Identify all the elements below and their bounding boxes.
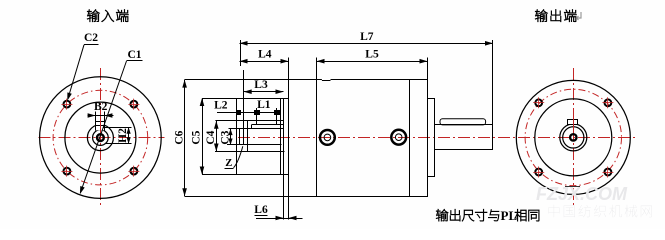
svg-text:L4: L4 — [258, 49, 272, 61]
svg-text:PL: PL — [501, 208, 518, 223]
svg-text:L2: L2 — [214, 99, 228, 111]
shaft step line under L3 — [243, 70, 245, 145]
left flange horizontal red centerline — [39, 137, 165, 139]
svg-text:C6: C6 — [174, 130, 186, 144]
dimension H2 extension lines — [103, 127, 132, 129]
L4 right extension line — [288, 58, 290, 80]
title text: output end (输出端) — [535, 10, 576, 22]
L5 extension lines — [316, 58, 318, 80]
svg-text:C1: C1 — [127, 49, 141, 61]
L4/L7 left extension line — [240, 40, 242, 66]
svg-text:L7: L7 — [360, 31, 374, 43]
output shaft key — [440, 119, 486, 125]
svg-text:Z: Z — [225, 158, 232, 169]
svg-text:C3: C3 — [219, 130, 231, 144]
watermark chinese line — [548, 205, 652, 218]
svg-text:L3: L3 — [254, 79, 268, 91]
right keyway key rectangle — [568, 120, 578, 125]
left flange vertical red centerline — [100, 68, 102, 207]
gearbox body rectangle — [289, 80, 428, 197]
left flange inner circle — [65, 102, 136, 173]
input shaft stub rectangle — [240, 128, 284, 130]
svg-text:L1: L1 — [257, 99, 271, 111]
dimension B2 line and arrows — [88, 115, 114, 117]
right flange inner circle — [535, 99, 612, 176]
output pilot ring — [428, 99, 435, 177]
body bolt hole right — [391, 130, 406, 145]
right hub center bore (thick) — [570, 134, 576, 140]
dimension C5 line with arrows — [202, 98, 204, 175]
dimension L7 line with arrows — [240, 43, 494, 45]
output shaft rectangle — [435, 125, 493, 150]
svg-text:B2: B2 — [94, 101, 108, 113]
right flange vertical red centerline — [573, 68, 575, 206]
right flange outer circle — [516, 80, 630, 194]
left keyway slot — [96, 122, 105, 131]
dimension L1 arrows — [275, 111, 280, 115]
dimension L1 and L2 shared arrow — [255, 111, 260, 115]
input shaft collar top line — [252, 124, 284, 126]
dimension C3 line with arrows — [230, 129, 232, 145]
body rear seam line — [409, 80, 411, 197]
main horizontal red centerline of side view and output flange — [238, 137, 637, 139]
dimension L6 extension lines — [283, 175, 285, 220]
left hub shaft circle — [87, 125, 113, 151]
L7 right extension line — [492, 40, 494, 125]
body front seam line — [316, 80, 318, 197]
right flange bolt holes — [535, 99, 542, 106]
svg-text:C4: C4 — [205, 130, 217, 144]
gray paragraph mark after output end title — [577, 12, 582, 20]
dimension L5 line with arrows — [317, 61, 428, 63]
left hub bore circle — [93, 130, 109, 146]
red centerline over right keyway — [573, 115, 575, 128]
body bolt hole left — [320, 130, 335, 145]
left flange outer circle — [40, 77, 162, 199]
left flange bolt holes — [64, 101, 71, 108]
right flange bolt circle (red dash-dot) — [525, 89, 621, 185]
dimension H2 line and arrows — [128, 127, 130, 144]
left flange bolt circle (red dash-dot) — [53, 90, 148, 185]
red centerline over left keyway — [100, 120, 102, 133]
svg-text:C2: C2 — [84, 32, 98, 44]
bottom note text: output dimensions same as PL (输出尺寸与PL相同) — [436, 209, 487, 221]
input shaft boss top/bottom lines — [248, 120, 284, 122]
dimension B2 extension lines — [95, 112, 97, 122]
small tick below right flange — [565, 186, 580, 188]
dimension C6 extension lines — [185, 79, 289, 81]
svg-text:FZJX.COM: FZJX.COM — [536, 184, 628, 204]
dimension L4 line with arrows — [240, 61, 289, 63]
svg-text:H2: H2 — [117, 128, 129, 143]
svg-text:L6: L6 — [254, 204, 268, 216]
flange face inner line — [280, 98, 282, 175]
dimension C4 extension lines — [215, 120, 248, 122]
dimension L6 line with arrows — [256, 218, 303, 220]
left hub center bore (thick) — [97, 134, 104, 141]
gearbox flange plate rectangle — [237, 99, 284, 175]
title text: input end (输入端) — [87, 10, 128, 22]
dimension C6 line with arrows — [184, 80, 186, 197]
dimension C4 line with arrows — [216, 121, 218, 152]
svg-text:L5: L5 — [365, 49, 379, 61]
dimension C5 extension lines — [202, 98, 289, 100]
svg-text:C5: C5 — [191, 130, 203, 144]
small step notch on body top edge — [322, 79, 331, 81]
dimension L1 L2 shared line — [217, 112, 279, 114]
dimension C3 extension lines — [229, 128, 240, 130]
dimension L3 line with arrows — [244, 91, 284, 93]
L1 L2 extension lines — [256, 108, 258, 125]
right hub outer circles — [560, 124, 587, 151]
dimension L2 arrows — [237, 111, 241, 115]
